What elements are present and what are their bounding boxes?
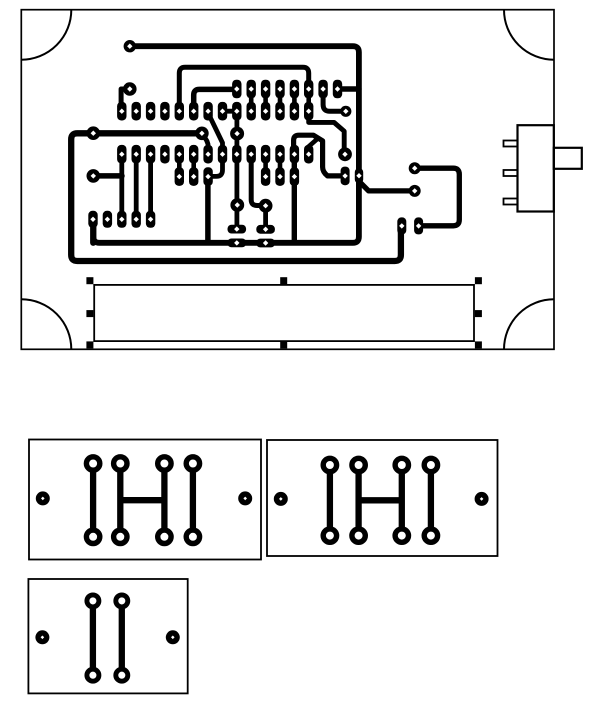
pad U bottom-left bbox=[397, 217, 406, 234]
FP2 pad (401.8,465) bbox=[395, 458, 408, 471]
FP1 mounting pad (245.2,498.4) bbox=[238, 491, 252, 505]
FP2 mounting pad (280.8,498.9) bbox=[274, 492, 288, 506]
wire diagonal k6 row2 to k7 row3 bbox=[208, 113, 222, 154]
pad left mid bbox=[87, 169, 101, 183]
FP1 mounting pad (42.8,498.4) bbox=[36, 491, 50, 505]
FP1 pad (120.3,536.8) bbox=[114, 530, 127, 543]
switch pin 3 bbox=[504, 199, 518, 205]
footprint FP1 outline bbox=[29, 440, 261, 560]
wire U-shape right pads bbox=[415, 168, 460, 226]
wire k13 row2 down, right, diagonal down to round pad bbox=[309, 111, 345, 154]
wire round pad down to oval pad bbox=[263, 206, 268, 230]
pad row3 col8 bbox=[232, 145, 241, 164]
pad row5 bbox=[88, 211, 97, 228]
switch actuator bbox=[554, 148, 582, 169]
wire pad P2 left and down to k0 row2 bbox=[121, 89, 129, 111]
pad row2 col1 bbox=[132, 102, 141, 121]
pad row3 col12 bbox=[290, 145, 299, 164]
pad row4 col6 bbox=[203, 167, 212, 186]
pad row2 col13 bbox=[304, 102, 313, 121]
wire k6 row4 down to bottom trace bbox=[205, 177, 211, 243]
pad horizontal oval bbox=[256, 225, 275, 234]
FP2 jumper bar col x=358.6 bbox=[355, 465, 361, 536]
FP3 mounting pad (172.8,637.3) bbox=[166, 630, 180, 644]
wire k7-k8 row2 link bbox=[223, 109, 237, 114]
pad row3 col3 bbox=[160, 145, 169, 164]
FP3 jumper bar col x=121.8 bbox=[119, 601, 125, 675]
FP2 pad (430.9,465) bbox=[424, 458, 437, 471]
FP1 H link bar bbox=[120, 497, 164, 503]
pad k9 elbow bbox=[259, 199, 273, 213]
wire round pad right to k0 column bbox=[93, 173, 122, 179]
pad row2 col3 bbox=[160, 102, 169, 121]
footprint FP2 outline bbox=[267, 440, 498, 556]
pad k8 chain mid bbox=[230, 127, 244, 141]
FP2 pad (329.9,465) bbox=[323, 458, 336, 471]
pad row2 col7 bbox=[218, 102, 227, 121]
wire column k1 row3-row5 link bbox=[134, 154, 139, 219]
corner arc top-left bbox=[21, 10, 71, 60]
FP2 mounting pad (481.6,498.9) bbox=[475, 492, 489, 506]
selection handle bottom-right bbox=[475, 341, 482, 348]
wire column k5 row3-row4 link bbox=[191, 154, 196, 176]
wire column k10 row3-row4 link bbox=[263, 154, 268, 176]
FP1 jumper bar col x=192.9 bbox=[190, 464, 196, 537]
wire k8 chain vertical bbox=[234, 111, 239, 229]
pad row2 col4 bbox=[175, 102, 184, 121]
wire k5 row2 up then right to k8 row1 bbox=[194, 89, 237, 111]
FP2 jumper bar col x=401.8 bbox=[399, 465, 405, 536]
selection handle top-right bbox=[475, 277, 482, 284]
wire outer loop: left side down, along bottom, up to pad bbox=[71, 133, 401, 261]
pad row3 col13 bbox=[304, 145, 313, 164]
FP2 jumper bar col x=329.9 bbox=[327, 465, 333, 536]
wire S-link round pad to k6 row3 bbox=[202, 135, 208, 155]
pad k8 chain low bbox=[230, 198, 244, 212]
pad row5 bbox=[146, 211, 155, 228]
wire column k11 row1-row2 link bbox=[278, 89, 283, 111]
corner arc top-right bbox=[504, 10, 554, 60]
wire row2-k4 up, right at y67, down to k13 row1 bbox=[179, 67, 308, 111]
wire column k2 row3-row5 link bbox=[148, 154, 153, 219]
pad k14 curve end bbox=[340, 106, 351, 117]
wire column k0 row3-row5 link bbox=[119, 154, 124, 219]
pad row5 bbox=[117, 211, 126, 228]
FP2 pad (358.6,535.6) bbox=[352, 529, 365, 542]
wire column k4 row3-row4 link bbox=[177, 154, 182, 176]
pad row2 col10 bbox=[261, 102, 270, 121]
FP2 pad (329.9,535.6) bbox=[323, 529, 336, 542]
pad row4 col12 bbox=[290, 167, 299, 186]
wire net1: pad P1 right, down right side, left along bottom, up to pad bbox=[93, 46, 359, 243]
FP1 pad (164.4,463.5) bbox=[158, 457, 171, 470]
corner arc bottom-left bbox=[21, 299, 71, 349]
FP2 H link bar bbox=[359, 497, 402, 503]
pad row1 col8 bbox=[232, 80, 241, 99]
wire column k9 row1-row2 link bbox=[249, 89, 254, 111]
corner arc bottom-right bbox=[504, 299, 554, 349]
selection rectangle (battery outline) bbox=[94, 285, 474, 341]
switch pin 2 bbox=[504, 170, 518, 176]
pad row4 col5 bbox=[189, 167, 198, 186]
FP1 pad (93.1,536.8) bbox=[86, 530, 99, 543]
FP1 jumper bar col x=93.1 bbox=[90, 464, 96, 537]
pad row3 col2 bbox=[146, 145, 155, 164]
wire column k10 row1-row2 link bbox=[263, 89, 268, 111]
FP2 jumper bar col x=430.9 bbox=[428, 465, 434, 536]
pad row3 col6 bbox=[203, 145, 212, 164]
pad row5 bbox=[132, 211, 141, 228]
wire k15 row1 to right vertical bbox=[338, 86, 359, 92]
pad row3 col11 bbox=[275, 145, 284, 164]
FP3 pad (121.8,600.9) bbox=[116, 595, 128, 607]
pad on left trace bbox=[87, 126, 101, 140]
pad row3 col9 bbox=[247, 145, 256, 164]
FP2 pad (358.6,465) bbox=[352, 458, 365, 471]
pad row1 col15 bbox=[333, 80, 342, 99]
wire pad left diagonal to right vertical bbox=[359, 181, 415, 191]
selection handle bottom-left bbox=[86, 341, 93, 348]
pad U bottom-right bbox=[414, 217, 423, 234]
pad row4 col4 bbox=[175, 167, 184, 186]
pad row3 col0 bbox=[117, 145, 126, 164]
wire k14 row1 curve to round pad bbox=[323, 90, 341, 112]
pad row3 col7 bbox=[218, 145, 227, 164]
board outline bbox=[21, 10, 554, 350]
pad row2 col0 bbox=[117, 102, 126, 121]
pad on right vertical bbox=[355, 168, 363, 183]
wire k12 column link down to bottom trace bbox=[292, 154, 297, 243]
FP1 pad (164.4,536.8) bbox=[158, 530, 171, 543]
selection handle bottom-mid bbox=[280, 341, 287, 348]
pad row2 col6 bbox=[203, 102, 212, 121]
FP1 pad (192.9,536.8) bbox=[186, 530, 199, 543]
pad row2 col5 bbox=[189, 102, 198, 121]
pad row1 col11 bbox=[275, 80, 284, 99]
pad row3 col1 bbox=[132, 145, 141, 164]
switch S1 body bbox=[518, 125, 554, 211]
pad row1 col14 bbox=[318, 80, 327, 99]
pad mid trace end bbox=[195, 127, 209, 141]
pad P2 bbox=[123, 82, 137, 96]
wire k13 row3 stub up-diagonal bbox=[309, 140, 317, 155]
pad row3 col10 bbox=[261, 145, 270, 164]
pad P1 trace start bbox=[124, 40, 136, 52]
pad stub bbox=[409, 185, 421, 197]
FP1 jumper bar col x=164.4 bbox=[161, 464, 167, 537]
FP3 pad (121.8,675.2) bbox=[116, 669, 128, 681]
FP3 pad (92.9,600.9) bbox=[87, 595, 99, 607]
pad row2 col8 bbox=[232, 102, 241, 121]
pad row1 col12 bbox=[290, 80, 299, 99]
pad U top bbox=[409, 162, 421, 174]
pad row1 col10 bbox=[261, 80, 270, 99]
pad right mid bbox=[338, 147, 352, 161]
pad tall oval right bbox=[341, 167, 350, 186]
pad row2 col12 bbox=[290, 102, 299, 121]
wire column k13 row1-row2 link bbox=[306, 89, 311, 111]
FP1 pad (120.3,463.5) bbox=[114, 457, 127, 470]
switch pin 1 bbox=[504, 141, 518, 147]
FP1 pad (93.1,463.5) bbox=[86, 457, 99, 470]
wire column k11 row3-row4 link bbox=[278, 154, 283, 176]
footprint FP3 outline bbox=[28, 579, 187, 693]
pad row3 col4 bbox=[175, 145, 184, 164]
pad row2 col2 bbox=[146, 102, 155, 121]
selection handle top-left bbox=[86, 277, 93, 284]
pad row3 col5 bbox=[189, 145, 198, 164]
FP2 pad (430.9,535.6) bbox=[424, 529, 437, 542]
selection handle mid-right bbox=[475, 310, 482, 317]
FP3 pad (92.9,675.2) bbox=[87, 669, 99, 681]
pad row4 col11 bbox=[275, 167, 284, 186]
selection handle mid-left bbox=[86, 310, 93, 317]
pad row4 col10 bbox=[261, 167, 270, 186]
wire column k12 row1-row2 link bbox=[292, 89, 297, 111]
pad row2 col11 bbox=[275, 102, 284, 121]
selection handle top-mid bbox=[280, 277, 287, 284]
FP1 pad (192.9,463.5) bbox=[186, 457, 199, 470]
pad horizontal oval on bottom trace bbox=[256, 239, 275, 248]
wire pad down to bottom trace bbox=[90, 220, 96, 243]
pad row2 col9 bbox=[247, 102, 256, 121]
pad row1 col13 bbox=[304, 80, 313, 99]
wire k7 row3 down elbow left to k6 row4 bbox=[210, 156, 223, 177]
FP3 mounting pad (42.4,637.3) bbox=[35, 630, 49, 644]
pad row5 bbox=[103, 211, 112, 228]
pad horizontal oval bbox=[228, 225, 247, 234]
pad row1 col9 bbox=[247, 80, 256, 99]
pad hole marks (white diamonds) bbox=[90, 44, 421, 246]
wire k12 curve up right down to big oval pad bbox=[294, 135, 341, 176]
pad horizontal oval on bottom trace bbox=[228, 239, 247, 248]
FP2 pad (401.8,535.6) bbox=[395, 529, 408, 542]
wire k9 down elbow right to round pad bbox=[251, 154, 264, 205]
FP1 jumper bar col x=120.3 bbox=[117, 464, 123, 537]
FP3 jumper bar col x=92.9 bbox=[90, 601, 96, 675]
